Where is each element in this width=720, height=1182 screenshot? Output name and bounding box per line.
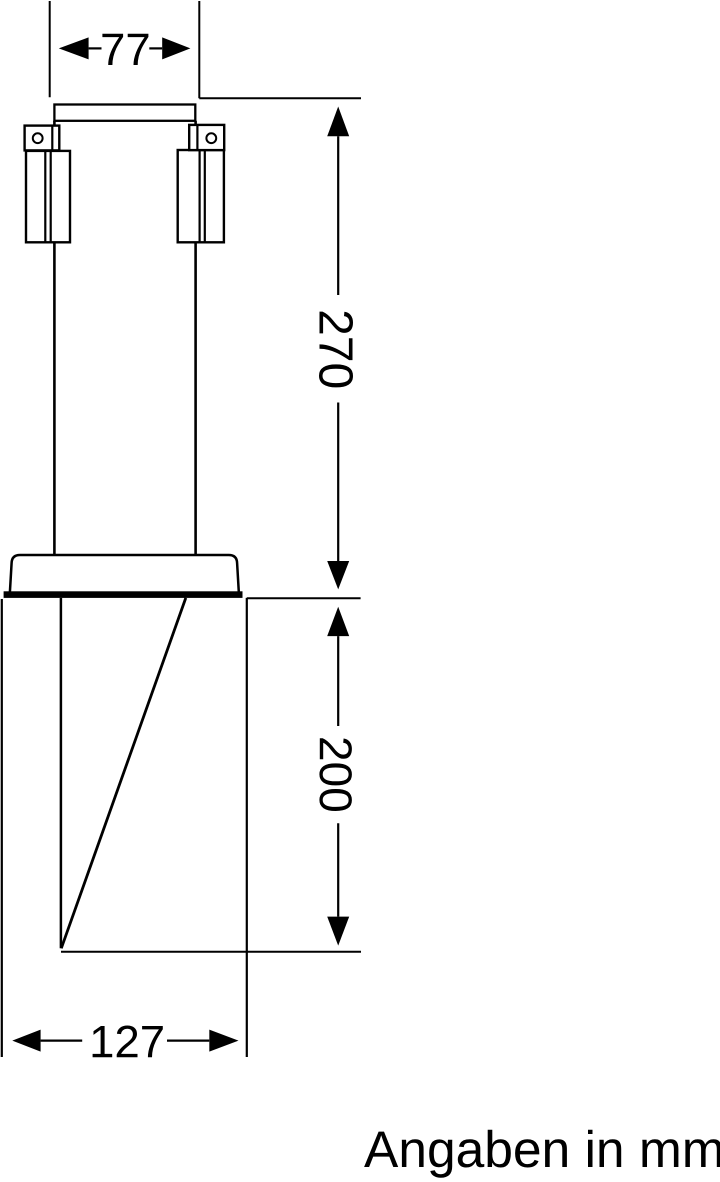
dimension 77 left tail (89, 47, 102, 49)
dimension 200 bottom arrow (327, 917, 349, 946)
dimension 77 right arrow (162, 37, 190, 59)
flange (10, 555, 239, 592)
right screw circle (206, 133, 216, 143)
right screw block divider (196, 125, 198, 150)
extension line bottom left (1, 599, 3, 1057)
left clamp body inner line 1 (44, 151, 46, 242)
right screw block (189, 125, 224, 150)
left screw block (25, 126, 60, 151)
dimension 270 text (319, 312, 353, 388)
spike diagonal edge (61, 598, 186, 948)
dimension 200 text (319, 738, 352, 811)
dimension 127 text (93, 1026, 163, 1058)
left clamp body inner line 2 (50, 151, 52, 242)
extension line 270 top horizontal (199, 97, 361, 99)
dimension 270 line upper (337, 136, 339, 295)
dimension 77 text (102, 34, 148, 65)
left clamp body (26, 151, 70, 242)
post left wall (53, 121, 56, 555)
post right wall (194, 121, 197, 555)
note text (364, 1130, 720, 1178)
spike left edge (60, 598, 63, 948)
dimension 200 line upper (337, 636, 339, 726)
dimension 77 left arrow (59, 37, 89, 59)
dimension 77 right tail (149, 47, 162, 49)
dimension 127 left tail (41, 1039, 83, 1041)
dimension 127 right tail (167, 1039, 209, 1041)
dimension 200 line lower (337, 823, 339, 916)
base plate (4, 591, 243, 598)
extension line base level horizontal (247, 597, 361, 599)
right clamp body inner line 1 (199, 150, 201, 242)
dimension 200 top arrow (327, 607, 349, 636)
extension line 77 right (198, 1, 200, 98)
right clamp body inner line 2 (204, 150, 206, 242)
left screw circle (33, 133, 43, 143)
extension line 77 left (49, 1, 51, 97)
dimension 270 bottom arrow (327, 561, 349, 589)
left screw block divider (51, 126, 53, 151)
dimension 270 top arrow (327, 107, 349, 137)
right clamp body (178, 150, 224, 242)
dimension 127 left arrow (12, 1030, 40, 1052)
dimension 270 line lower (337, 403, 339, 562)
post cap (54, 105, 195, 121)
dimension 127 right arrow (209, 1030, 238, 1052)
extension line spike tip horizontal (61, 951, 361, 953)
extension line bottom right (246, 598, 248, 1057)
